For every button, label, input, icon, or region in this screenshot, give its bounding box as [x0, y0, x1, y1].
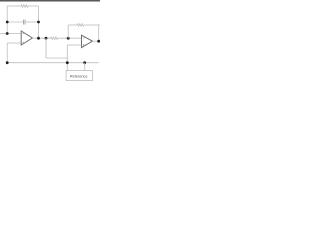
wire: stage2 feedback top right segment (y=25) [84, 24, 100, 26]
node dot: output branch (46,38.2) [45, 37, 48, 40]
wire: op-amp2 + drop to rail and reference box x=67.2 [66, 45, 68, 71]
wire: capacitor row left (y=22) [7, 21, 23, 23]
resistor R1 (stage1 feedback) [21, 5, 28, 8]
op-amp U2 minus mark [83, 37, 85, 39]
node dot: input junction (7.2,33.5) [6, 32, 9, 35]
wire: op-amp1 output (y=38.2) [32, 37, 50, 39]
wire: input line from left edge (y=33.5) [0, 33, 21, 35]
wire: op-amp1 output down branch x=46 [45, 38, 47, 58]
wire: left feedback vertical x=7.2 (top) [6, 6, 8, 34]
wire: stage1 feedback top right segment (y=6) [28, 5, 39, 7]
svg-text:Reference: Reference [70, 75, 88, 79]
resistor R2 (series, y=38.2) [51, 37, 58, 40]
op-amp U1 minus mark [23, 33, 25, 35]
wire: lower link y=58 [46, 57, 68, 59]
wire: stage2 feedback left vertical x=68.2 [67, 25, 69, 38]
node dot: rail at +2 drop (67.2,62.8) [66, 61, 69, 64]
node dot: feedback tap (38.5,38.2) [37, 37, 40, 40]
node dot: output2 node (98.7,41.2) [97, 40, 100, 43]
background [0, 0, 100, 100]
wire: stage2 feedback right vertical x=98.7 [98, 25, 100, 41]
op-amp U1 triangle [21, 31, 32, 45]
node dot: op-amp2 minus node (68.2,38.2) [67, 37, 70, 40]
wire: stage2 feedback top left segment (y=25) [68, 24, 77, 26]
node dot: rail left end (7.2,62.8) [6, 61, 9, 64]
resistor R3 (stage2 feedback) [77, 24, 84, 27]
wire: right feedback vertical x=38.5 [38, 6, 40, 38]
top window edge band [0, 0, 100, 1]
wire: R2 to op-amp2 minus input (y=38.2) [58, 37, 82, 39]
node dot: rail at box stub (84,62.8) [83, 61, 86, 64]
wire: reference box right stub x=84 [84, 63, 86, 71]
node dot: cap branch left (7.2,22) [6, 21, 9, 24]
wire: op-amp2 + input (y=45) [67, 44, 81, 46]
wire: op-amp1 + input (y=43) [7, 42, 21, 44]
op-amp U1 plus mark [23, 42, 25, 44]
wire: op-amp2 output (y=41.2) [93, 40, 99, 42]
wire: capacitor row right (y=22) [25, 21, 38, 23]
reference box [66, 71, 93, 81]
op-amp U2 plus mark [83, 44, 85, 46]
wire: stage1 feedback top left segment (y=6) [7, 5, 21, 7]
capacitor C1 plates [22, 20, 24, 25]
wire: reference rail y=62.8 [7, 62, 99, 64]
node dot: cap branch right (38.5,22) [37, 21, 40, 24]
wire: left ground vertical x=7.2 (bottom) [6, 43, 8, 63]
op-amp U2 triangle [82, 35, 93, 47]
